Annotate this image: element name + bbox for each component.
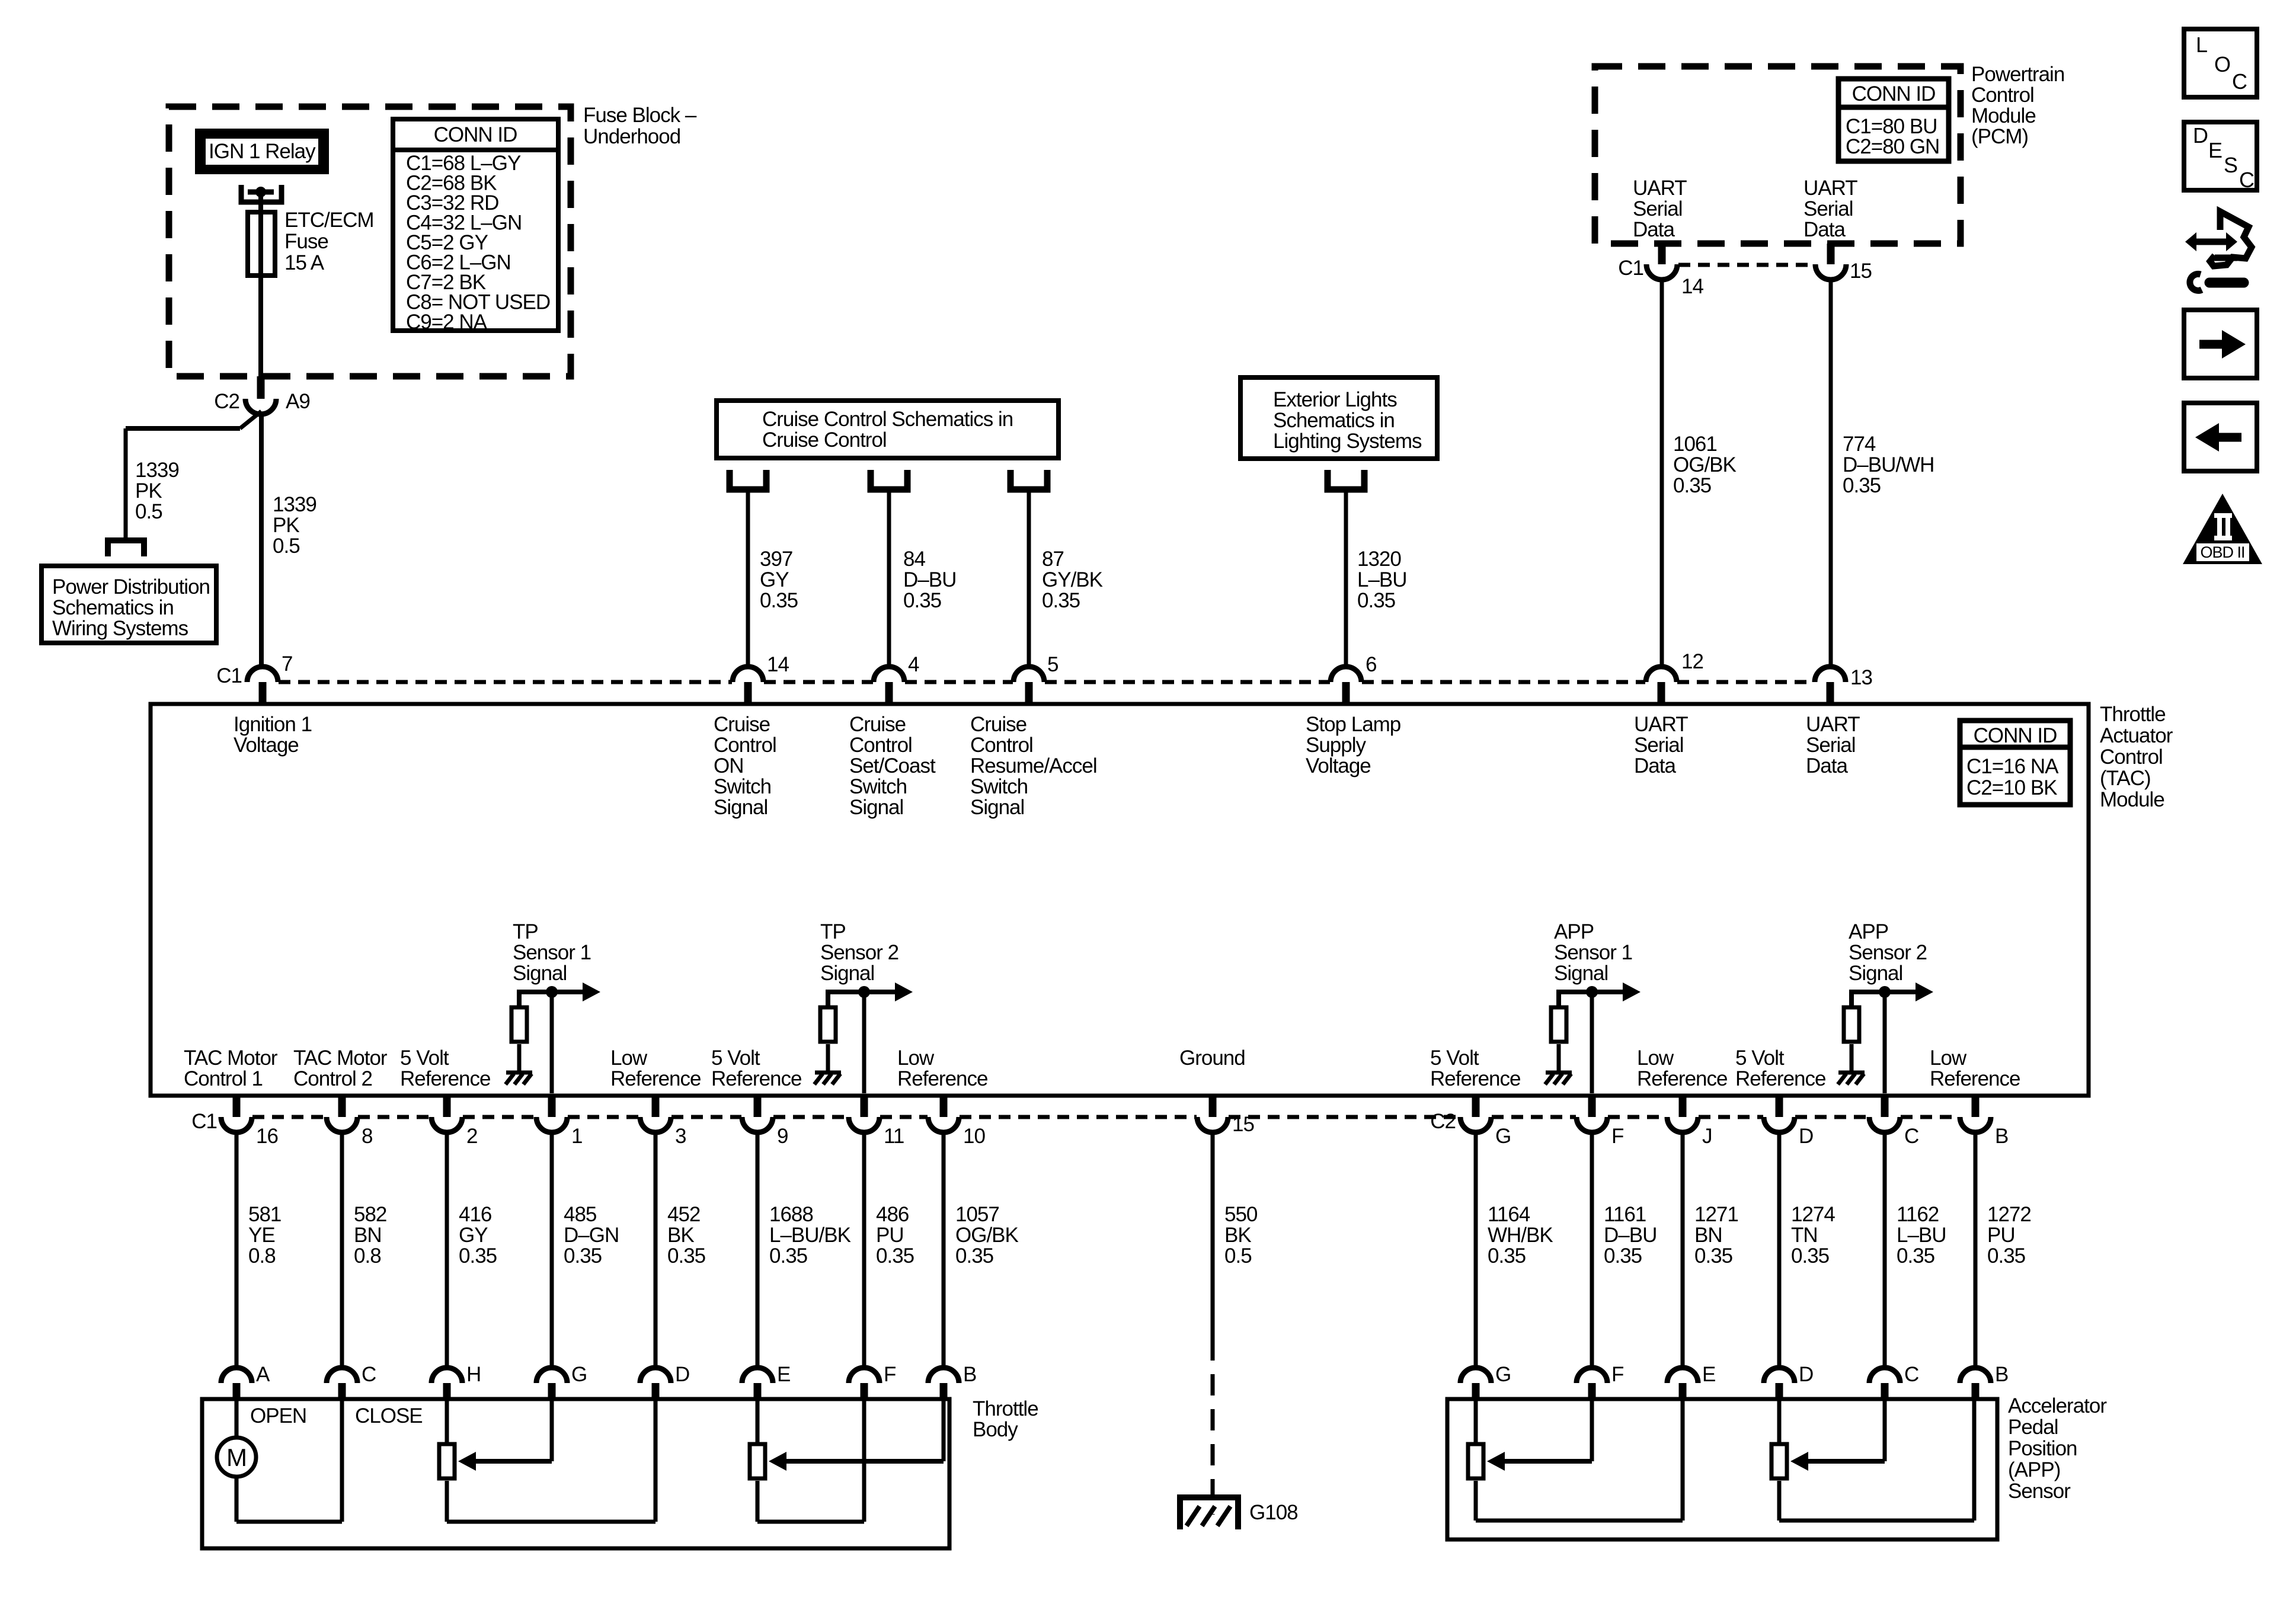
svg-text:14: 14 bbox=[1681, 275, 1703, 298]
svg-text:C: C bbox=[2239, 168, 2254, 192]
svg-text:Schematics in: Schematics in bbox=[1273, 409, 1395, 432]
svg-text:0.35: 0.35 bbox=[903, 589, 941, 612]
svg-text:15 A: 15 A bbox=[284, 251, 325, 274]
svg-text:C1: C1 bbox=[191, 1110, 217, 1133]
svg-text:Signal: Signal bbox=[1849, 962, 1902, 985]
svg-text:Body: Body bbox=[973, 1418, 1018, 1441]
svg-text:Cruise Control: Cruise Control bbox=[762, 428, 887, 452]
svg-text:0.5: 0.5 bbox=[1224, 1244, 1252, 1267]
svg-text:L–BU: L–BU bbox=[1897, 1224, 1946, 1247]
svg-text:PU: PU bbox=[876, 1224, 904, 1247]
svg-text:TAC Motor: TAC Motor bbox=[184, 1046, 278, 1070]
svg-text:1271: 1271 bbox=[1694, 1203, 1738, 1226]
svg-text:0.35: 0.35 bbox=[459, 1244, 497, 1267]
svg-text:C2=80 GN: C2=80 GN bbox=[1846, 135, 1939, 158]
svg-text:Sensor 1: Sensor 1 bbox=[1554, 941, 1632, 964]
svg-text:3: 3 bbox=[675, 1125, 686, 1148]
svg-text:Reference: Reference bbox=[897, 1067, 987, 1090]
svg-text:PU: PU bbox=[1987, 1224, 2015, 1247]
svg-text:Signal: Signal bbox=[970, 796, 1024, 819]
svg-text:TP: TP bbox=[513, 920, 538, 943]
svg-text:PK: PK bbox=[135, 479, 162, 502]
svg-text:0.35: 0.35 bbox=[564, 1244, 602, 1267]
svg-text:Set/Coast: Set/Coast bbox=[849, 754, 936, 777]
svg-text:L–BU/BK: L–BU/BK bbox=[769, 1224, 851, 1247]
svg-text:10: 10 bbox=[963, 1125, 985, 1148]
svg-text:1: 1 bbox=[571, 1125, 582, 1148]
svg-text:B: B bbox=[1995, 1363, 2008, 1386]
svg-text:1061: 1061 bbox=[1673, 433, 1717, 456]
svg-text:Actuator: Actuator bbox=[2100, 724, 2173, 747]
svg-text:0.35: 0.35 bbox=[955, 1244, 993, 1267]
svg-text:Data: Data bbox=[1806, 754, 1848, 777]
svg-text:Cruise: Cruise bbox=[714, 713, 770, 736]
svg-text:14: 14 bbox=[767, 653, 789, 676]
svg-text:D–GN: D–GN bbox=[564, 1224, 619, 1247]
svg-text:Switch: Switch bbox=[714, 775, 771, 798]
svg-text:C1: C1 bbox=[1618, 257, 1643, 280]
svg-text:WH/BK: WH/BK bbox=[1488, 1224, 1553, 1247]
svg-text:Exterior Lights: Exterior Lights bbox=[1273, 388, 1397, 411]
svg-text:Switch: Switch bbox=[970, 775, 1028, 798]
svg-text:YE: YE bbox=[248, 1224, 275, 1247]
svg-text:E: E bbox=[1702, 1363, 1715, 1386]
svg-text:Reference: Reference bbox=[610, 1067, 701, 1090]
svg-text:GY: GY bbox=[459, 1224, 488, 1247]
svg-text:Stop Lamp: Stop Lamp bbox=[1306, 713, 1400, 736]
svg-text:L–BU: L–BU bbox=[1357, 568, 1407, 591]
svg-text:1162: 1162 bbox=[1897, 1203, 1939, 1226]
svg-text:0.35: 0.35 bbox=[1897, 1244, 1934, 1267]
svg-text:BK: BK bbox=[1224, 1224, 1251, 1247]
svg-text:GY: GY bbox=[760, 568, 789, 591]
svg-text:774: 774 bbox=[1843, 433, 1876, 456]
svg-text:5: 5 bbox=[1047, 653, 1058, 676]
svg-text:1274: 1274 bbox=[1791, 1203, 1835, 1226]
svg-text:ETC/ECM: ETC/ECM bbox=[284, 209, 374, 232]
svg-text:0.35: 0.35 bbox=[760, 589, 798, 612]
svg-text:(APP): (APP) bbox=[2008, 1458, 2060, 1481]
svg-text:D: D bbox=[1799, 1125, 1813, 1148]
svg-text:1057: 1057 bbox=[955, 1203, 999, 1226]
svg-text:Fuse: Fuse bbox=[284, 230, 328, 253]
svg-text:C2: C2 bbox=[214, 390, 239, 413]
svg-text:1164: 1164 bbox=[1488, 1203, 1530, 1226]
svg-text:Signal: Signal bbox=[513, 962, 567, 985]
svg-text:0.35: 0.35 bbox=[1604, 1244, 1642, 1267]
svg-text:D: D bbox=[2193, 123, 2208, 148]
svg-text:D: D bbox=[675, 1363, 689, 1386]
svg-text:550: 550 bbox=[1224, 1203, 1258, 1226]
svg-text:0.35: 0.35 bbox=[1843, 474, 1881, 497]
svg-text:0.35: 0.35 bbox=[769, 1244, 807, 1267]
svg-text:CONN ID: CONN ID bbox=[434, 123, 517, 146]
svg-text:0.8: 0.8 bbox=[354, 1244, 381, 1267]
svg-text:0.8: 0.8 bbox=[248, 1244, 276, 1267]
svg-text:Control: Control bbox=[2100, 745, 2163, 769]
svg-text:0.35: 0.35 bbox=[1673, 474, 1711, 497]
svg-text:Control: Control bbox=[970, 734, 1033, 757]
svg-text:OBD II: OBD II bbox=[2200, 543, 2244, 561]
svg-text:Reference: Reference bbox=[1430, 1067, 1520, 1090]
svg-text:CONN ID: CONN ID bbox=[1852, 82, 1936, 105]
svg-text:E: E bbox=[777, 1363, 790, 1386]
svg-text:84: 84 bbox=[903, 548, 925, 571]
svg-text:Throttle: Throttle bbox=[2100, 703, 2166, 726]
svg-text:15: 15 bbox=[1850, 260, 1872, 283]
svg-text:G: G bbox=[571, 1363, 587, 1386]
svg-text:Low: Low bbox=[1637, 1046, 1674, 1070]
svg-text:OPEN: OPEN bbox=[250, 1404, 306, 1427]
svg-text:F: F bbox=[884, 1363, 896, 1386]
svg-text:5 Volt: 5 Volt bbox=[1430, 1046, 1479, 1070]
svg-text:Control 1: Control 1 bbox=[184, 1067, 263, 1090]
svg-text:581: 581 bbox=[248, 1203, 281, 1226]
svg-text:Powertrain: Powertrain bbox=[1971, 63, 2064, 86]
svg-text:Serial: Serial bbox=[1633, 197, 1682, 220]
svg-text:H: H bbox=[466, 1363, 481, 1386]
svg-text:0.35: 0.35 bbox=[1488, 1244, 1526, 1267]
svg-text:1272: 1272 bbox=[1987, 1203, 2031, 1226]
svg-text:Low: Low bbox=[897, 1046, 935, 1070]
svg-text:0.35: 0.35 bbox=[1357, 589, 1395, 612]
svg-text:CLOSE: CLOSE bbox=[355, 1404, 423, 1427]
svg-text:Data: Data bbox=[1803, 218, 1846, 241]
svg-text:C: C bbox=[362, 1363, 376, 1386]
svg-text:Signal: Signal bbox=[849, 796, 903, 819]
svg-text:A: A bbox=[256, 1363, 270, 1386]
svg-text:Accelerator: Accelerator bbox=[2008, 1394, 2107, 1417]
svg-text:Wiring Systems: Wiring Systems bbox=[52, 617, 188, 640]
svg-text:L: L bbox=[2196, 33, 2207, 57]
svg-text:BN: BN bbox=[1694, 1224, 1722, 1247]
svg-text:Serial: Serial bbox=[1803, 197, 1853, 220]
svg-text:S: S bbox=[2224, 153, 2237, 177]
svg-text:C1: C1 bbox=[216, 664, 242, 687]
svg-text:Signal: Signal bbox=[820, 962, 874, 985]
svg-text:Control: Control bbox=[1971, 84, 2034, 107]
svg-text:5 Volt: 5 Volt bbox=[711, 1046, 760, 1070]
svg-text:7: 7 bbox=[282, 652, 292, 676]
svg-text:C2=10 BK: C2=10 BK bbox=[1966, 776, 2057, 799]
svg-text:485: 485 bbox=[564, 1203, 596, 1226]
svg-text:Serial: Serial bbox=[1806, 734, 1855, 757]
svg-text:416: 416 bbox=[459, 1203, 491, 1226]
svg-text:582: 582 bbox=[354, 1203, 386, 1226]
svg-text:Voltage: Voltage bbox=[1306, 754, 1371, 777]
svg-text:Sensor: Sensor bbox=[2008, 1480, 2071, 1503]
svg-text:Pedal: Pedal bbox=[2008, 1416, 2058, 1439]
svg-text:Serial: Serial bbox=[1634, 734, 1683, 757]
svg-text:C9=2 NA: C9=2 NA bbox=[406, 311, 488, 334]
svg-text:Lighting Systems: Lighting Systems bbox=[1273, 430, 1422, 453]
svg-text:APP: APP bbox=[1554, 920, 1594, 943]
svg-text:1161: 1161 bbox=[1604, 1203, 1646, 1226]
svg-text:Signal: Signal bbox=[1554, 962, 1608, 985]
svg-text:Reference: Reference bbox=[1637, 1067, 1727, 1090]
svg-text:Low: Low bbox=[1930, 1046, 1967, 1070]
svg-text:1320: 1320 bbox=[1357, 548, 1401, 571]
svg-text:A9: A9 bbox=[286, 390, 310, 413]
svg-text:Cruise: Cruise bbox=[849, 713, 906, 736]
svg-text:Control: Control bbox=[714, 734, 776, 757]
svg-text:TP: TP bbox=[820, 920, 846, 943]
svg-text:C1=16 NA: C1=16 NA bbox=[1966, 755, 2059, 778]
svg-text:Cruise: Cruise bbox=[970, 713, 1027, 736]
svg-text:0.35: 0.35 bbox=[1694, 1244, 1732, 1267]
svg-text:1688: 1688 bbox=[769, 1203, 813, 1226]
svg-text:Voltage: Voltage bbox=[234, 734, 299, 757]
svg-text:0.35: 0.35 bbox=[667, 1244, 705, 1267]
svg-text:C: C bbox=[1904, 1125, 1918, 1148]
svg-text:C: C bbox=[1904, 1363, 1918, 1386]
svg-text:Ignition 1: Ignition 1 bbox=[234, 713, 312, 736]
svg-text:F: F bbox=[1611, 1125, 1623, 1148]
svg-text:Control: Control bbox=[849, 734, 912, 757]
svg-text:12: 12 bbox=[1681, 650, 1703, 673]
svg-text:0.35: 0.35 bbox=[876, 1244, 914, 1267]
svg-text:Switch: Switch bbox=[849, 775, 907, 798]
svg-text:4: 4 bbox=[908, 653, 919, 676]
svg-text:TAC Motor: TAC Motor bbox=[293, 1046, 388, 1070]
svg-text:Data: Data bbox=[1633, 218, 1675, 241]
svg-text:Throttle: Throttle bbox=[973, 1397, 1038, 1420]
svg-text:D–BU: D–BU bbox=[903, 568, 956, 591]
svg-text:0.35: 0.35 bbox=[1987, 1244, 2025, 1267]
svg-text:0.5: 0.5 bbox=[135, 500, 162, 523]
svg-text:486: 486 bbox=[876, 1203, 909, 1226]
svg-text:C: C bbox=[2232, 69, 2247, 94]
svg-text:5 Volt: 5 Volt bbox=[1735, 1046, 1785, 1070]
svg-text:BN: BN bbox=[354, 1224, 382, 1247]
svg-text:Sensor 1: Sensor 1 bbox=[513, 941, 591, 964]
svg-text:UART: UART bbox=[1634, 713, 1688, 736]
svg-text:0.35: 0.35 bbox=[1791, 1244, 1829, 1267]
svg-text:O: O bbox=[2214, 52, 2230, 76]
svg-text:Ground: Ground bbox=[1179, 1046, 1245, 1070]
svg-text:Reference: Reference bbox=[400, 1067, 490, 1090]
svg-text:Sensor 2: Sensor 2 bbox=[1849, 941, 1927, 964]
svg-text:J: J bbox=[1702, 1125, 1712, 1148]
svg-text:APP: APP bbox=[1849, 920, 1888, 943]
svg-text:0.5: 0.5 bbox=[273, 534, 300, 558]
svg-text:16: 16 bbox=[256, 1125, 278, 1148]
svg-text:Module: Module bbox=[2100, 788, 2164, 811]
svg-text:Reference: Reference bbox=[711, 1067, 801, 1090]
svg-text:Position: Position bbox=[2008, 1437, 2077, 1460]
svg-text:F: F bbox=[1611, 1363, 1623, 1386]
svg-text:TN: TN bbox=[1791, 1224, 1818, 1247]
svg-text:0.35: 0.35 bbox=[1042, 589, 1080, 612]
svg-text:Reference: Reference bbox=[1930, 1067, 2020, 1090]
svg-text:UART: UART bbox=[1633, 177, 1687, 200]
svg-text:D–BU/WH: D–BU/WH bbox=[1843, 453, 1934, 476]
svg-text:1339: 1339 bbox=[135, 459, 179, 482]
svg-text:Data: Data bbox=[1634, 754, 1676, 777]
svg-text:Supply: Supply bbox=[1306, 734, 1367, 757]
svg-text:Reference: Reference bbox=[1735, 1067, 1825, 1090]
svg-text:Sensor 2: Sensor 2 bbox=[820, 941, 898, 964]
svg-text:Schematics in: Schematics in bbox=[52, 596, 174, 619]
svg-text:Fuse Block –: Fuse Block – bbox=[583, 104, 697, 127]
svg-text:397: 397 bbox=[760, 548, 792, 571]
svg-text:15: 15 bbox=[1232, 1113, 1254, 1136]
svg-text:OG/BK: OG/BK bbox=[1673, 453, 1737, 476]
svg-text:UART: UART bbox=[1806, 713, 1860, 736]
svg-text:G: G bbox=[1495, 1363, 1511, 1386]
svg-text:G: G bbox=[1495, 1125, 1511, 1148]
svg-text:C2: C2 bbox=[1430, 1110, 1456, 1133]
svg-text:87: 87 bbox=[1042, 548, 1064, 571]
svg-text:8: 8 bbox=[362, 1125, 372, 1148]
svg-text:IGN 1 Relay: IGN 1 Relay bbox=[209, 140, 316, 163]
svg-text:BK: BK bbox=[667, 1224, 694, 1247]
svg-text:ON: ON bbox=[714, 754, 744, 777]
svg-text:Low: Low bbox=[610, 1046, 648, 1070]
svg-text:Resume/Accel: Resume/Accel bbox=[970, 754, 1097, 777]
svg-text:1339: 1339 bbox=[273, 493, 316, 516]
svg-text:B: B bbox=[1995, 1125, 2008, 1148]
svg-text:5 Volt: 5 Volt bbox=[400, 1046, 449, 1070]
svg-text:Power Distribution: Power Distribution bbox=[52, 575, 210, 598]
svg-text:B: B bbox=[963, 1363, 976, 1386]
svg-text:PK: PK bbox=[273, 514, 299, 537]
svg-text:2: 2 bbox=[466, 1125, 477, 1148]
svg-text:OG/BK: OG/BK bbox=[955, 1224, 1019, 1247]
svg-text:(PCM): (PCM) bbox=[1971, 125, 2028, 148]
svg-text:6: 6 bbox=[1366, 653, 1376, 676]
svg-text:D: D bbox=[1799, 1363, 1813, 1386]
svg-text:Underhood: Underhood bbox=[583, 125, 680, 148]
svg-text:M: M bbox=[226, 1443, 247, 1471]
svg-text:UART: UART bbox=[1803, 177, 1857, 200]
svg-text:Cruise Control Schematics in: Cruise Control Schematics in bbox=[762, 408, 1013, 431]
svg-text:GY/BK: GY/BK bbox=[1042, 568, 1103, 591]
svg-text:CONN ID: CONN ID bbox=[1974, 724, 2057, 747]
svg-text:E: E bbox=[2208, 138, 2222, 162]
svg-text:9: 9 bbox=[777, 1125, 788, 1148]
svg-text:(TAC): (TAC) bbox=[2100, 767, 2151, 790]
svg-text:Signal: Signal bbox=[714, 796, 768, 819]
svg-text:11: 11 bbox=[884, 1125, 904, 1148]
svg-text:Control 2: Control 2 bbox=[293, 1067, 372, 1090]
svg-text:Module: Module bbox=[1971, 104, 2036, 127]
svg-text:G108: G108 bbox=[1249, 1501, 1298, 1524]
svg-text:D–BU: D–BU bbox=[1604, 1224, 1657, 1247]
svg-text:452: 452 bbox=[667, 1203, 700, 1226]
svg-text:13: 13 bbox=[1850, 666, 1872, 689]
